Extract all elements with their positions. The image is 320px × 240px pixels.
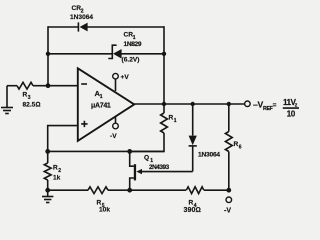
junction dot R3 / inverting input — [46, 83, 51, 88]
wire top feedback horizontal — [48, 26, 78, 28]
svg-text:390Ω: 390Ω — [184, 207, 201, 214]
svg-text:6: 6 — [239, 145, 242, 151]
diode CR1 1N829 zener — [108, 45, 121, 58]
svg-text:1N829: 1N829 — [124, 41, 142, 48]
diode 1N3064 (right) — [189, 104, 197, 172]
wire CR1 row right — [122, 53, 165, 55]
svg-text:–V: –V — [253, 100, 263, 110]
wire top feedback right part — [88, 26, 165, 28]
junction dot -V node — [226, 188, 231, 193]
ground (left of R3) — [1, 86, 13, 114]
svg-text:3: 3 — [28, 95, 31, 101]
svg-text:=: = — [273, 102, 277, 109]
svg-text:2: 2 — [58, 168, 61, 174]
svg-text:μA741: μA741 — [91, 103, 111, 110]
-V terminal (bottom) — [226, 197, 232, 203]
svg-text:-V: -V — [224, 208, 231, 215]
wire bottom left — [48, 189, 88, 191]
resistor R1 — [130, 104, 168, 151]
wire bottom mid — [108, 189, 186, 191]
svg-text:1k: 1k — [53, 175, 61, 182]
ground (below R2) — [42, 190, 53, 202]
resistor R5 10k — [88, 187, 108, 194]
svg-text:REF: REF — [263, 106, 273, 112]
resistor R4 390ohm — [186, 187, 204, 194]
svg-text:10k: 10k — [99, 207, 110, 214]
diode CR2 — [78, 22, 87, 31]
junction dot CR1-left — [46, 52, 50, 56]
wire mid horizontal (+input to R1/Q1) — [48, 150, 164, 152]
resistor R6 — [225, 104, 232, 190]
junction dot Q1 source — [127, 188, 132, 193]
svg-text:Q: Q — [144, 155, 149, 162]
svg-text:-V: -V — [110, 133, 117, 140]
wire non-inverting input — [48, 126, 78, 152]
wire left vertical — [47, 26, 49, 85]
junction dot output/R1 — [162, 102, 166, 106]
svg-text:10: 10 — [287, 109, 296, 118]
junction dot output/R6 — [227, 102, 231, 106]
svg-text:1N3064: 1N3064 — [198, 152, 220, 159]
junction dot output/diode — [191, 102, 195, 106]
junction dot CR1-right — [162, 52, 166, 56]
resistor R3 82.5ohm — [7, 82, 48, 89]
op-amp A1 uA741 — [78, 68, 134, 141]
wire right feedback vertical — [163, 26, 165, 104]
svg-text:(6.2V): (6.2V) — [122, 56, 140, 63]
-V terminal (op amp) — [113, 117, 119, 129]
svg-text:1: 1 — [133, 35, 136, 41]
svg-text:82.5Ω: 82.5Ω — [23, 102, 41, 109]
svg-text:1: 1 — [100, 94, 103, 100]
wire inverting input — [48, 85, 78, 87]
junction dot R2 bottom — [45, 188, 50, 193]
wire bottom right — [204, 189, 229, 191]
output terminal — [245, 101, 251, 107]
label -Vref = 11Vz/10 — [253, 98, 299, 118]
+V terminal — [113, 73, 119, 91]
svg-text:+V: +V — [121, 74, 130, 81]
svg-text:1: 1 — [174, 118, 177, 124]
junction dot Q1 drain — [127, 149, 132, 154]
wire CR1 row left — [48, 53, 112, 55]
svg-text:2N4393: 2N4393 — [149, 164, 170, 171]
resistor R2 1k — [44, 151, 51, 190]
wire output — [134, 103, 244, 105]
svg-text:1N3064: 1N3064 — [70, 14, 93, 21]
transistor Q1 2N4393 — [130, 151, 193, 190]
junction dot +input/R2 — [45, 149, 50, 154]
